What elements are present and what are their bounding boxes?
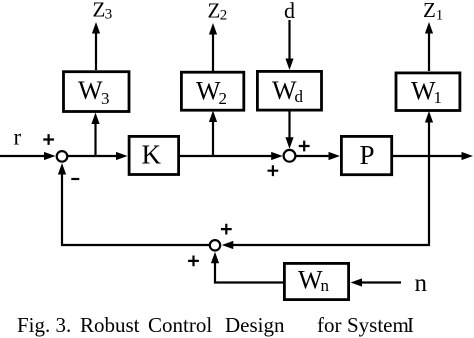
block K [129,136,179,174]
arrowhead into W3 bottom [91,113,99,125]
plus sign at circle3 top right [221,224,232,235]
wire branch up to W1 and down to feedback [231,120,429,245]
wire Wn output to circle3 [215,260,283,283]
svg-text:W: W [78,76,103,105]
arrowhead into circle1 bottom [58,163,66,175]
arrowhead into circle2 top [285,137,293,149]
svg-text:1: 1 [434,88,443,107]
svg-text:W: W [411,77,436,106]
wire W1 to Z1 [428,31,430,71]
arrowhead into W2 bottom [209,111,217,123]
summing junction circle1 [57,151,68,162]
arrowhead Z3 [92,22,100,34]
wire K to circle2 [180,155,275,157]
wire W3 to Z3 [95,31,97,70]
svg-text:3: 3 [101,89,110,108]
wire d to Wd [288,20,290,62]
svg-text:Z: Z [423,0,436,22]
wire Wd to circle2 [288,111,290,141]
svg-text:Z: Z [93,0,106,21]
svg-text:W: W [196,77,221,106]
summing junction circle3 [210,240,220,250]
plus sign at circle2 top right [299,141,310,152]
arrowhead into Wn right [351,278,363,286]
arrowhead into circle1 [44,152,56,160]
block Wd [257,71,321,110]
arrowhead Z1 [425,22,433,34]
arrowhead into P [329,152,341,160]
wire n to Wn [359,281,401,283]
wire circle2 to P [296,155,333,157]
arrowhead into W1 bottom [425,111,433,123]
wire branch up to W3 [94,121,96,156]
block W2 [181,72,243,110]
wire circle1 to K [68,155,120,157]
svg-text:W: W [272,76,297,105]
svg-text:n: n [321,276,330,295]
arrowhead into K [116,152,128,160]
svg-text:2: 2 [219,89,228,108]
svg-text:W: W [298,266,323,295]
svg-text:d: d [284,0,295,23]
caption [17,313,71,338]
wire circle3 to circle1 feedback [62,171,209,245]
svg-text:P: P [360,140,375,170]
wire W2 to Z2 [212,32,214,71]
arrowhead into circle3 bottom [211,252,219,263]
wire branch up to W2 [212,119,214,156]
plus sign at circle1 [43,134,54,145]
svg-text:r: r [14,124,22,149]
arrowhead Z2 [209,23,217,35]
svg-text:2: 2 [220,8,228,24]
arrowhead into Wd top [285,59,293,71]
block W1 [396,73,460,111]
plus sign at circle2 bottom left [268,165,279,176]
plus sign at circle3 bottom left [188,256,199,267]
block P [341,136,391,174]
svg-text:3: 3 [105,7,113,23]
svg-text:d: d [295,87,304,106]
block Wn [284,263,348,299]
arrowhead into circle3 right [222,241,234,249]
wire r input [0,155,47,157]
arrowhead output right [462,152,474,160]
minus sign at circle1 [71,178,79,180]
arrowhead into circle2 left [271,152,283,160]
svg-text:K: K [142,140,162,170]
svg-text:Z: Z [208,0,221,22]
svg-text:1: 1 [436,7,444,23]
summing junction circle2 [284,150,296,162]
wire P output [393,155,464,157]
svg-text:n: n [415,270,428,297]
block W3 [64,72,130,112]
